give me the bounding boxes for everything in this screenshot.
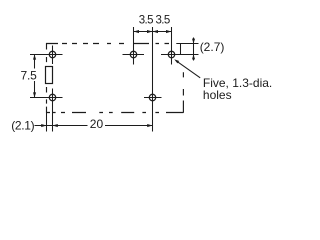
arrowhead top dim centre pointing left (tip x=152.5): [153, 30, 159, 33]
arrowhead top dim left (tip x=133.5): [134, 30, 140, 33]
centre line through H5 from top dim to bottom dim: [152, 27, 154, 132]
hole H1 top-left circle: [49, 51, 55, 57]
hole H3 crosshair + extension up: [123, 27, 145, 65]
arrowhead 2.7 down (tip y=43.5): [192, 39, 195, 44]
right protrusion box right edge / (2.7) arrow line: [193, 38, 195, 61]
leader line to Five holes note: [177, 61, 201, 78]
outline right edge (dashed): [182, 72, 184, 113]
arrowhead 7.5 up (tip y=54.5): [33, 55, 36, 60]
hole H2 bottom-left circle: [49, 94, 55, 100]
svg-text:3.5 3.5: 3.5 3.5: [139, 15, 170, 27]
svg-text:holes: holes: [203, 88, 232, 102]
svg-text:7.5: 7.5: [21, 68, 38, 82]
bottom dimension line segments: [35, 125, 153, 127]
outline top edge (dashed): [46, 43, 169, 45]
hole H5 crosshair: [144, 97, 162, 99]
arrowhead 2.1 right (tip x=46.5): [41, 124, 46, 127]
arrowhead 7.5 down (tip y=97.5): [33, 92, 36, 97]
hole H2 crosshair + extension down: [30, 89, 63, 132]
bottom-left outline edge extension line: [46, 113, 48, 132]
outline bottom edge (dashed): [47, 112, 184, 114]
dim 7.5 line upper segment: [34, 55, 36, 69]
arrowhead leader (tip at hole H4): [174, 59, 179, 63]
svg-text:20: 20: [90, 117, 104, 131]
protrusion rectangle on left edge: [46, 67, 53, 84]
hole H3 top-middle circle: [130, 51, 136, 57]
right protrusion box left edge: [180, 44, 182, 55]
hole H4 crosshair + extension up and right: [161, 27, 199, 65]
dim 7.5 line lower segment: [34, 81, 36, 98]
hole H4 top-right circle: [168, 51, 174, 57]
arrowhead top dim centre pointing right (tip x=152.5): [147, 30, 153, 33]
outline left edge (dashed): [46, 43, 48, 113]
arrowhead 2.1 left (tip x=52.5): [53, 124, 58, 127]
hole H5 bottom-middle circle: [149, 94, 155, 100]
arrowhead top dim right (tip x=171.5): [166, 30, 172, 33]
svg-text:(2.7): (2.7): [200, 40, 225, 54]
arrowhead 20 right (tip x=152.5): [147, 124, 152, 127]
dim (2.7) top extension line: [176, 43, 198, 45]
hole H1 crosshair: [30, 46, 63, 65]
svg-text:(2.1): (2.1): [11, 119, 34, 133]
arrowhead 2.7 up (tip y=54.5): [192, 55, 195, 60]
top dimension line 3.5/3.5: [134, 31, 172, 33]
